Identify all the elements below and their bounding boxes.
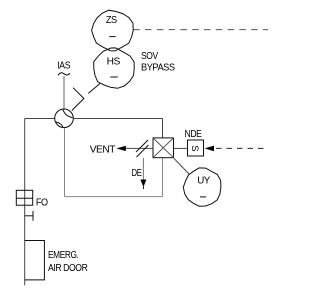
DE arrowhead — [140, 180, 146, 188]
wire: horizontal from ball valve left to corner — [25, 118, 55, 120]
tag dash inside HS — [110, 76, 118, 78]
drain end cap — [32, 211, 34, 221]
svg-text:HS: HS — [107, 55, 121, 67]
valve diagonal 2 — [153, 138, 174, 158]
pneumatic slash 2 on VENT line — [137, 145, 149, 157]
tag dash inside UY — [200, 196, 206, 198]
instrument bubble UY — [183, 168, 221, 206]
FO box midline — [16, 197, 32, 199]
svg-text:NDE: NDE — [185, 129, 203, 140]
wire: big box left edge (ball valve bottom stem) — [64, 128, 66, 197]
instrument bubble HS — [94, 48, 135, 88]
wire: IAS supply stem — [63, 76, 65, 109]
instrument bubble ZS — [92, 10, 134, 51]
wire: dashed signal line from NDE arrow to right edge — [216, 147, 268, 149]
ball valve inner arc upper — [63, 109, 73, 117]
wire: chevron segment at ball valve actuator — [72, 88, 84, 111]
wire: horizontal from ball valve right to top-right corner — [73, 118, 162, 120]
svg-text:EMERG.: EMERG. — [48, 249, 79, 261]
wire: valve right port to solenoid box — [174, 147, 188, 149]
svg-text:VENT: VENT — [90, 144, 116, 156]
svg-text:IAS: IAS — [57, 60, 70, 72]
wire: HS tail segment to ball valve — [88, 84, 100, 94]
wire: DE branch stem — [142, 158, 144, 180]
svg-text:BYPASS: BYPASS — [141, 61, 175, 73]
DE arrow tail tick — [142, 187, 145, 190]
pneumatic slash 1 on VENT line — [136, 140, 148, 152]
NDE arrowhead — [205, 146, 215, 152]
drain stub — [25, 215, 33, 217]
tag dash inside ZS — [109, 36, 115, 38]
wire: stem from valve bottom down — [162, 158, 164, 197]
svg-text:SOV: SOV — [141, 50, 158, 62]
wire: left vertical main pipe — [24, 119, 26, 286]
wire: dashed signal line from ZS to right edge — [133, 29, 268, 31]
svg-text:FO: FO — [36, 196, 48, 208]
solenoid box NDE — [188, 140, 204, 156]
wire: diagonal from valve corner to UY bubble — [174, 158, 189, 174]
ball valve body — [55, 109, 74, 128]
VENT arrowhead — [117, 146, 126, 151]
wire: big box bottom edge — [65, 196, 163, 198]
valve body square — [153, 138, 174, 158]
FO orifice box — [16, 190, 32, 205]
wire: stem from corner down into valve top — [162, 119, 164, 138]
valve diagonal 1 — [153, 138, 174, 158]
squiggle under IAS — [58, 73, 70, 76]
wire: VENT line into valve left port — [126, 147, 154, 149]
svg-text:DE: DE — [132, 167, 142, 179]
svg-text:AIR DOOR: AIR DOOR — [48, 262, 88, 274]
svg-text:S: S — [189, 145, 200, 151]
emergency air door box — [25, 241, 45, 280]
ball valve inner arc lower — [55, 122, 63, 128]
svg-text:ZS: ZS — [106, 14, 117, 26]
svg-text:UY: UY — [197, 174, 210, 186]
